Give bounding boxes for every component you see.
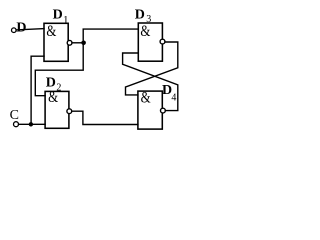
- svg-text:D: D: [46, 76, 56, 91]
- input terminal D (open circle): [12, 28, 17, 33]
- svg-text:&: &: [141, 90, 151, 107]
- wire: D1 output to node: [72, 42, 83, 44]
- svg-text:&: &: [46, 23, 56, 40]
- junction on C line: [29, 122, 33, 126]
- svg-text:D: D: [53, 8, 63, 23]
- svg-text:D: D: [16, 21, 26, 36]
- output bubble of D4 (on right edge): [161, 108, 166, 113]
- svg-text:3: 3: [146, 14, 151, 25]
- wire: D4 output right, up, diagonal, up to D3 lower input: [123, 53, 178, 111]
- gate D2 (NAND) rectangle: [45, 91, 69, 128]
- svg-text:D: D: [135, 8, 145, 23]
- gate D3 (NAND) rectangle: [138, 23, 162, 61]
- output bubble of D3 (on right edge): [160, 39, 165, 44]
- wire: D3 output right, down, diagonal to D4 upper input: [126, 42, 178, 95]
- output bubble of D2: [67, 109, 72, 114]
- svg-text:&: &: [140, 23, 150, 40]
- gate D1 (NAND) rectangle: [44, 23, 68, 61]
- wire: node down, left, down to D2 upper input: [35, 43, 83, 96]
- wire: node up and right to D3 upper input: [83, 29, 138, 43]
- svg-text:C: C: [10, 108, 19, 123]
- wire: C line up to D1 lower input: [31, 56, 44, 124]
- svg-text:4: 4: [171, 93, 176, 104]
- wire: D2 output right, down, right to D4 lower input: [72, 111, 138, 124]
- input terminal C (open circle): [14, 122, 19, 127]
- output bubble of D1: [67, 40, 72, 45]
- junction node at D1 output: [81, 41, 86, 46]
- svg-text:1: 1: [63, 14, 69, 26]
- wire: D terminal to D1 upper input: [16, 29, 44, 30]
- svg-text:2: 2: [56, 82, 61, 93]
- wire: C terminal to D2 lower input: [19, 123, 45, 125]
- gate D4 (NAND) rectangle: [138, 91, 162, 129]
